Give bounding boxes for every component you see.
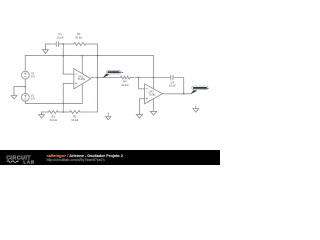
node junction dot feedback/output [183,93,185,95]
svg-text:10 µF: 10 µF [169,83,176,87]
node crossing dot op2 V+ drop [153,77,155,79]
flag pointer node Ondaquadrada [103,74,110,78]
node crossing dot rail/feedback vertical [97,55,99,57]
wire R3 right to corner [86,43,98,45]
ground GND6 near output [193,106,199,112]
svg-text:9 V: 9 V [31,74,35,78]
wire between R1 and R2 [58,111,69,113]
value label OA2 TL081 [149,91,157,97]
wire op1 V- power pin [81,84,83,104]
svg-text:Ondatriangular: Ondatriangular [193,87,209,90]
wire op2 V+ power drop [152,56,154,89]
ground GND5 op2 V- [150,111,156,115]
wire op1 V+ power pin [81,56,83,74]
wire plus input riser down to lower rail [62,84,64,113]
svg-text:10 kΩ: 10 kΩ [71,118,78,122]
node A junction dot [62,43,64,45]
node junction dot lower rail midpoint [62,111,64,113]
resistor R3 [74,43,87,46]
value label R1 10 kOhm [50,115,57,122]
op-amp U1 [74,69,91,89]
node junction dot op2 inv riser [138,77,140,79]
wire V2 to V1 [24,79,26,93]
ground GND1 top-left [43,44,49,53]
resistor R2 [70,111,80,114]
value label C4 10uF [169,80,176,87]
node crossing dot rail/riser [62,55,64,57]
capacitor C1 [56,42,58,47]
value label V1 9V [31,94,35,101]
node junction dot op1 V+ pin [81,55,83,57]
svg-text:Ondaquadrada: Ondaquadrada [108,72,124,74]
wire V1 bottom to V- line [25,101,82,103]
svg-text:LAB: LAB [23,159,35,164]
flag box node Ondatriangular [192,86,208,90]
wire feedback vertical x=97.5 from top rail down to lower rail [97,44,99,112]
wire V+ supply rail [25,55,153,57]
ground GND2 supply midpoint [11,96,17,100]
wire op1 output row [91,77,121,79]
node junction dot supply midpoint [24,86,26,88]
svg-text:TL081: TL081 [78,78,86,81]
resistor R1 [48,111,58,114]
svg-text:10 kΩ: 10 kΩ [50,118,57,122]
wire op2 plus input stub down [139,99,144,115]
capacitor C4 [171,75,173,80]
value label R4 20 kOhm [121,80,128,87]
wire lower rail left [42,111,49,113]
value label OA1 TL081 [78,75,86,81]
flag pointer node Ondatriangular [190,90,197,94]
voltage source V2 [21,71,29,79]
flag box node Ondaquadrada [107,70,121,74]
svg-text:TL081: TL081 [149,93,157,96]
wire lower rail right [80,111,98,113]
wire op2 output row [162,93,191,95]
logo wave [7,161,18,163]
svg-text:30 kΩ: 30 kΩ [75,35,82,39]
wire op1 plus input stub [63,83,74,85]
wire op1 inverting input stub [63,73,74,75]
wire op2 V- power pin [152,99,154,111]
wire C1 to node A [59,43,74,45]
footer bar [0,150,220,165]
node crossing dot V- line / plus riser [62,103,64,105]
wire node A riser down to inverting input [62,44,64,74]
wire midpoint to ground [14,87,25,96]
node junction dot output/feedback [97,77,99,79]
svg-text:9 V: 9 V [31,97,35,101]
ground GND3 lower rail [39,112,45,118]
value label R3 30 kOhm [75,32,82,39]
ground GND7 standalone below output flag1 [106,113,111,120]
resistor R4 [120,76,130,79]
svg-text:10 µF: 10 µF [57,35,64,39]
op-amp U2 [145,84,163,104]
voltage source V1 [21,93,29,101]
value label V2 9V [31,71,35,78]
value label C1 10uF [57,32,64,39]
wire rail left corner down to V2 [24,56,26,72]
value label R2 10 kOhm [71,115,78,122]
wire op2 inverting riser [138,78,144,89]
wire R4 to cap C4 [130,77,170,79]
ground GND4 op2 plus [136,114,142,118]
svg-text:20 kΩ: 20 kΩ [121,83,128,87]
wire top rail left segment [45,43,56,45]
wire C4 right corner down to output row [173,78,184,94]
svg-text:http://circuitlab.com/c/5q7dam: http://circuitlab.com/c/5q7dam87pa7n [47,158,105,162]
